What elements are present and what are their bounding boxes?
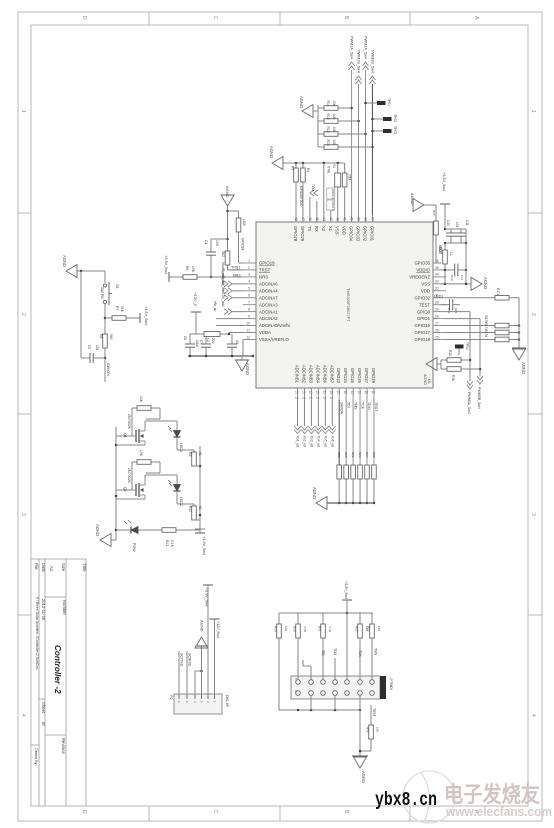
resistor R21 [318, 613, 333, 638]
svg-text:TDI: TDI [346, 402, 350, 408]
svg-text:2*7MDI: 2*7MDI [389, 678, 393, 690]
resistor R20 [337, 452, 342, 504]
watermark ybx8.cn [375, 789, 437, 811]
wire PWM1B vertical [357, 84, 360, 215]
wire LED +3.3V bus [199, 446, 202, 529]
resistor R11 [318, 101, 352, 111]
wire X-gpio stub [316, 201, 318, 215]
wire TDO [367, 400, 371, 465]
svg-text:TRST: TRST [259, 268, 271, 273]
svg-text:VSS: VSS [421, 281, 430, 286]
capacitor C7 [199, 337, 211, 356]
watermark logo circle [403, 771, 455, 823]
svg-text:10K: 10K [191, 266, 195, 273]
capacitor C11 [456, 220, 469, 243]
svg-text:GPIO33: GPIO33 [414, 261, 430, 266]
svg-text:45: 45 [315, 217, 319, 221]
svg-text:ADCINA2: ADCINA2 [259, 316, 278, 321]
svg-text:TDI: TDI [321, 650, 325, 656]
watermark chinese [444, 782, 540, 807]
svg-text:AGND: AGND [225, 186, 230, 198]
wire +3.3V bus right [444, 229, 468, 244]
svg-text:File: File [34, 563, 39, 570]
svg-text:AGND: AGND [483, 277, 488, 289]
svg-text:A4: A4 [49, 566, 54, 572]
capacitor C8 [227, 333, 239, 356]
svg-text:2012-11-20: 2012-11-20 [41, 599, 46, 621]
svg-text:P2: P2 [169, 695, 173, 700]
wire TCK [358, 638, 362, 680]
svg-text:C15: C15 [432, 210, 436, 216]
wire JTAG R19 to pin13 [279, 638, 298, 710]
svg-text:R17d: R17d [484, 329, 488, 337]
resistor R9 (led series) [177, 440, 202, 466]
svg-text:21: 21 [351, 391, 355, 395]
svg-text:10K: 10K [332, 101, 336, 108]
svg-text:TMS320F28027PT: TMS320F28027PT [346, 288, 351, 322]
svg-text:SW-PB: SW-PB [100, 287, 104, 299]
svg-text:R9: R9 [188, 452, 192, 456]
power +3.3V (P2) [203, 585, 213, 694]
svg-text:ADCINB3: ADCINB3 [308, 365, 313, 384]
svg-text:R24: R24 [365, 452, 369, 458]
net entry Vout2_adc [221, 269, 243, 294]
svg-text:HRS3.3: HRS3.3 [331, 189, 335, 199]
svg-text:+12V_5w4: +12V_5w4 [216, 621, 220, 638]
power +3.3V (right rail) [440, 172, 450, 230]
svg-text:Vo5_ad: Vo5_ad [323, 436, 327, 447]
net label TRST [231, 266, 241, 270]
svg-text:PWM1B_5w4: PWM1B_5w4 [357, 50, 361, 73]
resistor R18b [446, 323, 520, 335]
svg-text:C4: C4 [204, 240, 208, 244]
svg-text:C3: C3 [295, 396, 299, 400]
svg-text:ADCINA4: ADCINA4 [259, 288, 278, 293]
wire EMU step [303, 660, 311, 680]
svg-text:AGND: AGND [423, 374, 427, 385]
capacitor C19 (VDDIO decouple) [450, 243, 467, 284]
svg-text:TDO: TDO [367, 402, 371, 410]
wire TCK [360, 400, 364, 465]
svg-text:Y1: Y1 [332, 164, 336, 168]
svg-text:35: 35 [435, 266, 439, 270]
svg-text:AGND: AGND [62, 255, 67, 267]
wire PWM2A vertical [364, 70, 367, 215]
svg-text:GPIO33: GPIO33 [356, 226, 361, 242]
power +3.3V (LED) [195, 529, 206, 555]
svg-text:Controller -2: Controller -2 [53, 645, 62, 694]
svg-text:VSS: VSS [335, 226, 340, 235]
wire GPIO33 to C15 [436, 262, 441, 264]
svg-text:C5: C5 [87, 345, 91, 349]
capacitor C6 [183, 334, 199, 356]
svg-text:1: 1 [248, 259, 250, 263]
svg-text:Title: Title [82, 563, 87, 572]
net label NRS [233, 273, 241, 277]
svg-text:AGND: AGND [521, 362, 526, 374]
net entry PWM3A [467, 381, 473, 414]
wire switch bottom [104, 304, 107, 334]
resistor R16 [441, 367, 480, 381]
op-amp U1 DSP TMS320F28027 body [256, 222, 433, 388]
ground AGND (gpio led bus) [512, 348, 526, 374]
bottom ADC net entries [294, 396, 336, 447]
svg-text:14: 14 [302, 391, 306, 395]
wire net SW/ON [105, 358, 110, 382]
svg-text:AGND: AGND [95, 524, 100, 536]
wire JTAG bottom gnd bus [279, 695, 361, 711]
resistor gate pulldown R12 [132, 450, 160, 481]
led LED3 POW [116, 520, 162, 552]
svg-text:TX: TX [307, 226, 312, 232]
svg-text:AGND: AGND [200, 620, 205, 632]
svg-text:Date: Date [41, 563, 46, 573]
svg-text:ADCINA3: ADCINA3 [259, 302, 278, 307]
svg-text:9: 9 [248, 314, 250, 318]
svg-text:51: 51 [198, 452, 202, 456]
svg-text:TRST: TRST [231, 266, 241, 270]
capacitor C4 (reset) [204, 239, 228, 278]
svg-text:33: 33 [435, 280, 439, 284]
svg-text:TDO: TDO [311, 184, 315, 191]
svg-text:X1: X1 [328, 226, 333, 232]
svg-text:C14: C14 [447, 308, 451, 314]
crystal Y1 [327, 163, 341, 215]
svg-text:C6: C6 [316, 396, 320, 400]
svg-text:42: 42 [336, 217, 340, 221]
svg-text:10uF: 10uF [195, 340, 199, 347]
svg-text:GPIO19: GPIO19 [259, 261, 275, 266]
svg-text:VSSA/VREFLO: VSSA/VREFLO [259, 337, 290, 342]
svg-text:10K: 10K [332, 114, 336, 121]
ground AGND (JTAG) [352, 756, 368, 783]
led LED2 [145, 475, 183, 506]
svg-text:32: 32 [435, 287, 439, 291]
svg-text:2: 2 [248, 266, 250, 270]
svg-text:41: 41 [343, 217, 347, 221]
transistor Q1 2N7002 [116, 414, 145, 445]
resistor R12 [318, 114, 359, 124]
svg-text:ybx8.cn: ybx8.cn [375, 789, 437, 811]
svg-text:Q2: Q2 [123, 487, 127, 492]
svg-text:23: 23 [365, 391, 369, 395]
svg-text:R11: R11 [326, 101, 330, 107]
svg-text:51: 51 [198, 506, 202, 510]
svg-text:C7: C7 [199, 340, 203, 344]
wire GPIO1 to PWM3B [446, 319, 481, 376]
svg-text:47: 47 [301, 217, 305, 221]
wire JTAG gnd drop [359, 710, 362, 756]
svg-text:L2: L2 [206, 338, 210, 342]
net entry PWM1A [349, 36, 355, 70]
svg-text:GPIO27: GPIO27 [364, 368, 369, 384]
svg-text:ADCINB6: ADCINB6 [322, 365, 327, 384]
svg-text:HRS1.9: HRS1.9 [331, 201, 335, 211]
svg-text:SW/ON: SW/ON [106, 363, 110, 376]
wire TDI [346, 400, 350, 465]
svg-text:AGND: AGND [299, 96, 304, 108]
resistor R3 [291, 163, 304, 215]
svg-text:44: 44 [322, 217, 326, 221]
svg-text:LED2: LED2 [179, 497, 183, 506]
svg-text:4: 4 [248, 280, 250, 284]
svg-text:TCK: TCK [360, 402, 364, 410]
svg-text:37: 37 [370, 217, 374, 221]
resistor R23 [358, 452, 363, 504]
svg-text:R4: R4 [306, 168, 310, 172]
svg-text:GPIO29: GPIO29 [300, 226, 305, 242]
svg-text:R21: R21 [318, 626, 322, 632]
ground AGND (gpio pulldowns) [312, 487, 327, 510]
svg-text:GPIO0: GPIO0 [417, 309, 431, 314]
resistor R24 (TRST pulldown) [360, 705, 380, 751]
svg-text:48: 48 [294, 217, 298, 221]
resistor R4 [301, 163, 310, 215]
svg-text:220: 220 [211, 338, 215, 344]
ground AGND (reset area) [221, 186, 234, 206]
svg-text:4.7K: 4.7K [303, 626, 307, 632]
svg-text:ADCINB2: ADCINB2 [301, 365, 306, 384]
resistor R19 [274, 613, 289, 638]
svg-text:39: 39 [357, 217, 361, 221]
svg-text:C: C [212, 810, 218, 814]
capacitor C14 (TEST) [441, 299, 460, 314]
svg-text:Vo6_ad: Vo6_ad [330, 436, 334, 447]
svg-text:38: 38 [364, 217, 368, 221]
svg-text:+3.3V_5w4: +3.3V_5w4 [144, 306, 148, 325]
wire LED gnd bus [115, 427, 118, 540]
svg-text:104: 104 [95, 345, 99, 351]
svg-text:R15: R15 [448, 350, 452, 356]
svg-text:7: 7 [248, 301, 250, 305]
svg-text:GPIO28: GPIO28 [293, 226, 298, 242]
svg-text:GPIO26: GPIO26 [357, 368, 362, 384]
svg-text:560: 560 [109, 334, 113, 340]
wire JTAG R20 to pin1 [297, 638, 299, 680]
svg-text:Q1: Q1 [123, 433, 127, 438]
svg-text:ADCINA0/Vrefhi: ADCINA0/Vrefhi [259, 323, 290, 328]
wire PWM1A vertical [350, 70, 353, 215]
svg-text:R14: R14 [326, 140, 330, 146]
svg-text:ADCINA1: ADCINA1 [259, 309, 278, 314]
svg-text:C6: C6 [183, 336, 187, 340]
svg-text:43: 43 [329, 217, 333, 221]
svg-text:Size: Size [61, 563, 66, 572]
svg-text:1: 1 [20, 110, 26, 113]
svg-text:R10: R10 [188, 506, 192, 512]
ground AGND (analog) [236, 356, 251, 375]
svg-text:TCK: TCK [358, 650, 362, 658]
ground AGND (pwm pulldown right) [423, 358, 441, 386]
resistor R25 [372, 452, 377, 504]
svg-text:ADCINB4: ADCINB4 [315, 365, 320, 384]
wire SW/ON [339, 400, 343, 465]
svg-text:Vo3_ad: Vo3_ad [309, 436, 313, 447]
svg-text:Vo1_ad: Vo1_ad [296, 436, 300, 447]
svg-text:R21: R21 [344, 452, 348, 458]
resistor R22 [351, 452, 356, 504]
svg-text:R3: R3 [291, 166, 295, 170]
wire TDO [333, 648, 337, 680]
svg-text:VDD: VDD [342, 226, 347, 235]
ground AGND (PWM pulldowns) [299, 96, 318, 118]
svg-text:R6: R6 [185, 266, 189, 270]
resistor R18c [446, 329, 520, 341]
ground AGND (switch) [62, 255, 77, 278]
wire PWM pulldown common [317, 105, 319, 147]
wire gpio led bus [518, 298, 520, 348]
svg-text:11: 11 [246, 328, 250, 332]
resistor R21 [344, 452, 349, 504]
svg-text:LED1: LED1 [179, 443, 183, 452]
resistor R22 [355, 613, 370, 638]
svg-text:25: 25 [435, 335, 439, 339]
watermark url [445, 805, 552, 819]
transistor Q2 2N7002 [116, 468, 145, 499]
wire switch top [77, 270, 105, 358]
svg-text:104: 104 [455, 222, 459, 228]
svg-text:Vfb_ad: Vfb_ad [213, 301, 217, 312]
svg-text:10K: 10K [139, 450, 143, 457]
svg-text:19: 19 [337, 391, 341, 395]
resistor R5 (osc) [342, 163, 351, 215]
svg-text:C8: C8 [330, 396, 334, 400]
svg-text:8: 8 [248, 307, 250, 311]
svg-text:GPIO34: GPIO34 [241, 238, 245, 250]
wire TMS [353, 400, 357, 465]
svg-text:3: 3 [20, 513, 26, 516]
svg-text:+3.3V_adc: +3.3V_adc [221, 290, 225, 307]
svg-text:SCITXD: SCITXD [179, 653, 183, 667]
svg-text:40: 40 [350, 217, 354, 221]
svg-text:C7: C7 [323, 396, 327, 400]
svg-text:F:\Three Solar Inverter\..\Con: F:\Three Solar Inverter\..\Controller-2.… [35, 597, 39, 670]
test point TP03 [371, 126, 397, 134]
svg-text:4: 4 [530, 714, 536, 717]
wire SCITXD [179, 651, 183, 694]
power +3.3V (NRS pullup) [164, 255, 183, 282]
resistor R1 (GPIO19 pullup) [228, 211, 247, 263]
resistor R18a [446, 316, 520, 328]
svg-text:R8: R8 [99, 334, 103, 338]
resistor R15 [441, 350, 470, 362]
svg-text:R25: R25 [372, 452, 376, 458]
net entry PWM2A [363, 36, 369, 70]
svg-text:TP04: TP04 [465, 342, 469, 350]
svg-text:2: 2 [530, 313, 536, 316]
svg-text:GPIO18: GPIO18 [414, 337, 430, 342]
svg-text:www.elecfans.com: www.elecfans.com [445, 805, 552, 819]
svg-text:2N7002K: 2N7002K [127, 468, 131, 484]
svg-text:GPIO25: GPIO25 [350, 368, 355, 384]
svg-text:TMS: TMS [353, 402, 357, 410]
wire TMS [372, 638, 378, 680]
inductor L1 [438, 243, 453, 270]
svg-text:R13: R13 [165, 540, 169, 546]
resistor R20 [293, 613, 308, 638]
svg-text:D: D [81, 16, 87, 20]
wire VDDIO rail [441, 269, 455, 272]
svg-text:Sheet: Sheet [41, 702, 46, 714]
inductor L2 ferrite [196, 332, 243, 344]
wire X2 gnd [323, 163, 325, 215]
wire GPIO0 to PWM3A [446, 312, 471, 381]
ground AGND (P2) [195, 620, 208, 648]
resistor R10 (led series) [177, 494, 202, 520]
power +3.3V_A [191, 292, 201, 334]
svg-text:C4: C4 [302, 396, 306, 400]
svg-text:+3.3V_5w4: +3.3V_5w4 [344, 581, 348, 599]
capacitor C10 [446, 220, 459, 243]
svg-text:2.1K: 2.1K [170, 540, 174, 548]
svg-text:+3.3V_5w4: +3.3V_5w4 [442, 172, 446, 191]
svg-text:PWM2A_5w4: PWM2A_5w4 [364, 36, 368, 59]
led LED1 [145, 421, 183, 452]
svg-text:3: 3 [248, 273, 250, 277]
power +12V (P2) [210, 619, 221, 694]
svg-text:46: 46 [308, 217, 312, 221]
svg-text:104: 104 [215, 240, 219, 246]
svg-text:PWM3A_5w4: PWM3A_5w4 [467, 392, 471, 414]
svg-text:C10: C10 [446, 220, 450, 226]
svg-text:Vo2_ad: Vo2_ad [302, 436, 306, 447]
svg-text:R23: R23 [367, 626, 371, 632]
wire PWM2B vertical [371, 84, 374, 215]
svg-text:XTAL: XTAL [327, 166, 331, 174]
svg-text:Vo4_ad: Vo4_ad [316, 436, 320, 447]
svg-text:C11: C11 [465, 220, 469, 226]
resistor R13 [318, 127, 366, 137]
svg-text:ADCINB7: ADCINB7 [329, 365, 334, 384]
svg-text:ADCINA7: ADCINA7 [259, 295, 278, 300]
svg-text:+3.3V_5w4: +3.3V_5w4 [164, 255, 168, 274]
svg-text:10K: 10K [376, 727, 380, 732]
svg-text:17: 17 [323, 391, 327, 395]
ground AGND (osc area) [269, 146, 283, 170]
svg-text:DB1-6P: DB1-6P [225, 695, 229, 708]
svg-text:3: 3 [530, 513, 536, 516]
svg-text:TDO: TDO [333, 648, 337, 656]
svg-text:1: 1 [530, 110, 536, 113]
svg-text:13: 13 [295, 391, 299, 395]
svg-text:1M4: 1M4 [242, 219, 246, 226]
svg-text:R7: R7 [115, 306, 119, 310]
svg-text:22: 22 [358, 391, 362, 395]
svg-text:2N7002K: 2N7002K [127, 414, 131, 430]
svg-text:GPIO32: GPIO32 [414, 295, 430, 300]
svg-text:4: 4 [20, 714, 26, 717]
svg-text:GPIO1: GPIO1 [417, 316, 431, 321]
resistor R23 [367, 613, 382, 638]
ground AGND (GPIO33 filter) [410, 193, 424, 212]
svg-text:AGND: AGND [361, 771, 366, 783]
svg-text:PWM1A_5w4: PWM1A_5w4 [350, 36, 354, 59]
svg-text:RX: RX [314, 226, 319, 232]
svg-text:51K: 51K [120, 306, 124, 313]
net entry +3.3V_adc [221, 290, 243, 315]
svg-text:R23: R23 [358, 452, 362, 458]
resistor R24 [365, 452, 370, 504]
border zone numbers 1 2 3 4 [20, 110, 536, 717]
svg-text:GPIO31: GPIO31 [369, 226, 374, 242]
test point TP02 [371, 114, 397, 122]
svg-text:TMS: TMS [374, 648, 378, 656]
svg-text:10K: 10K [377, 626, 381, 631]
svg-text:VDDA: VDDA [259, 330, 271, 335]
svg-text:GPIO24: GPIO24 [343, 368, 348, 384]
svg-text:GPIO17: GPIO17 [414, 330, 430, 335]
svg-text:15: 15 [309, 391, 313, 395]
